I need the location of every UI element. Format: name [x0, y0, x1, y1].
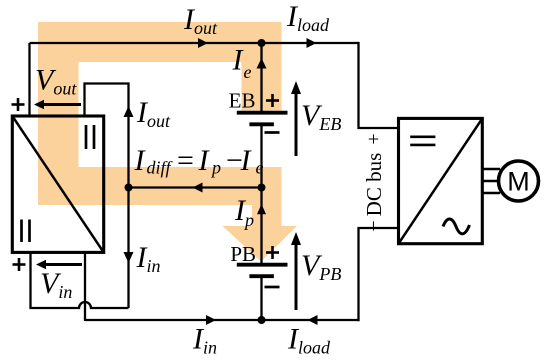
svg-text:+: + — [363, 133, 385, 144]
arrowhead Iin bottom wire — [206, 315, 216, 325]
arrowhead Iin left wire — [124, 252, 134, 263]
battery PB short plate — [249, 274, 274, 278]
arrowhead Iout top wire — [198, 38, 208, 48]
highlight band left vertical — [38, 22, 79, 205]
inverter DC symbol — [410, 136, 435, 139]
wire converter bottom terminal — [84, 252, 86, 321]
wire top (Iout/Iload) — [30, 42, 359, 44]
converter diagonal — [12, 116, 103, 252]
arrowhead Iload top wire — [307, 38, 317, 48]
minus sign PB — [265, 286, 280, 289]
node junction dot Idiff left — [125, 184, 133, 192]
converter DC symbol bottom-left — [20, 220, 23, 243]
motor M circle — [499, 161, 539, 201]
highlight arrowhead into PB — [223, 226, 298, 262]
plus sign Vin — [13, 258, 26, 271]
svg-text:DC bus: DC bus — [362, 153, 386, 217]
wire bottom-right corner up to DC bus - — [359, 228, 400, 321]
inverter AC sine symbol — [443, 219, 470, 234]
svg-text:PB: PB — [230, 242, 256, 266]
three-phase lines to motor — [482, 168, 500, 171]
svg-text:M: M — [507, 167, 530, 197]
minus sign EB — [265, 131, 280, 134]
inverter diagonal — [399, 118, 483, 243]
arrowhead Ip — [257, 204, 266, 214]
highlight band top horizontal — [38, 22, 282, 62]
battery PB long plate — [237, 263, 288, 267]
wire top-right corner down to DC bus + — [359, 42, 400, 128]
highlight band middle horizontal — [38, 167, 282, 205]
arrowhead Ie — [257, 58, 267, 69]
highlight band right upper vertical — [242, 22, 282, 111]
wire Idiff horizontal — [129, 186, 262, 188]
plus sign PB — [266, 246, 279, 259]
node junction dot top (Ie tap) — [258, 39, 266, 47]
arrowhead Idiff — [193, 183, 203, 193]
node junction dot Idiff right — [258, 184, 266, 192]
inverter box — [399, 118, 483, 243]
VEB arrow — [295, 93, 298, 156]
wire EB top — [260, 43, 262, 111]
wire EB bottom to Idiff node — [260, 126, 262, 188]
wire converter upper loop — [85, 84, 129, 309]
Vin arrow — [42, 263, 82, 266]
converter box — [12, 116, 103, 252]
converter DC symbol top-right — [85, 125, 88, 149]
svg-text:−: − — [363, 220, 385, 231]
VPB arrow — [295, 244, 298, 310]
arrowhead Iout inner loop — [124, 106, 134, 117]
arrowhead Iload bottom wire — [308, 315, 318, 325]
wire bottom (Iin/Iload return) — [85, 319, 359, 321]
node junction dot bottom — [258, 316, 266, 324]
battery EB long plate — [237, 111, 288, 115]
wire PB top — [260, 188, 262, 264]
Vout arrow — [39, 103, 81, 106]
wire PB bottom — [260, 278, 262, 321]
plus sign Vout — [12, 98, 25, 111]
highlight band right lower vertical — [252, 167, 282, 228]
svg-text:EB: EB — [229, 89, 256, 113]
wire Vin loop with hop — [31, 252, 129, 308]
battery EB short plate — [249, 122, 274, 126]
plus sign EB — [266, 94, 279, 107]
wire left vertical to converter — [28, 43, 30, 116]
